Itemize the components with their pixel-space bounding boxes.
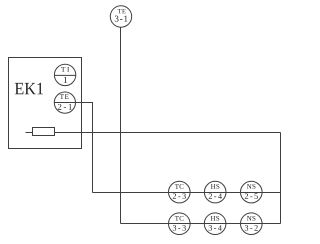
wire: TE 2-1 connector y=102.5 then drop at x=92.5 to row 1: [54, 103, 92, 193]
instrument bubble HS 3-4: [204, 213, 226, 235]
instrument bubble TI 1: [54, 64, 75, 85]
instrument bubble TE 2-1: [54, 92, 75, 113]
instrument bubble NS 3-2: [241, 213, 263, 235]
wire: row 2 horizontal y=223.5: [121, 223, 281, 225]
resistor element (heater) with left stub lead: [26, 128, 55, 136]
wire: vertical drop from TE 3-1 through top net junction down to row 2 corner: [120, 27, 122, 223]
label EK1: [15, 83, 43, 94]
wire: top horizontal net y=132.5 from resistor to right bus: [55, 132, 281, 134]
instrument bubble TE 3-1: [110, 6, 131, 27]
instrument bubble TC 2-3: [169, 181, 191, 203]
instrument bubble NS 2-5: [241, 181, 263, 203]
wire: row 1 horizontal y=192.5: [93, 192, 281, 194]
enclosure box EK1: [9, 58, 82, 149]
wire: right vertical bus x=280.5: [280, 133, 282, 224]
instrument bubble TC 3-3: [169, 213, 191, 235]
instrument bubble HS 2-4: [204, 181, 226, 203]
